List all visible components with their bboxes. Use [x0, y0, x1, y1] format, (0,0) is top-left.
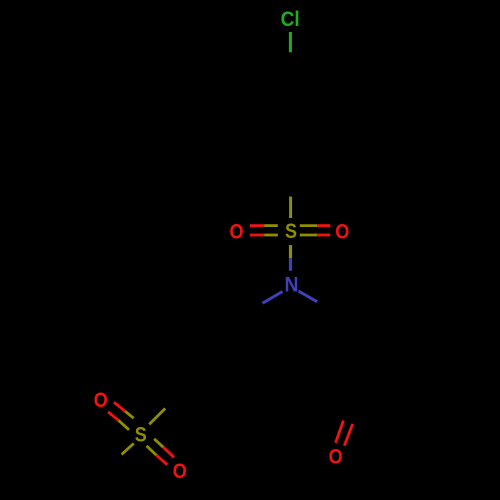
aldehyde C=O double bond (red halves): [336, 421, 344, 443]
svg-text:O: O: [230, 221, 244, 244]
svg-text:O: O: [94, 389, 108, 412]
bond S2-CH3 (olive half): [122, 443, 134, 454]
svg-text:O: O: [329, 446, 343, 469]
bond N-C2 (blue half): [299, 291, 318, 302]
S2=O upper-left double bond: [108, 402, 134, 430]
bond S1-N (olive half + blue half): [289, 245, 292, 258]
svg-text:S: S: [135, 424, 147, 447]
svg-text:Cl: Cl: [281, 8, 300, 31]
S1=O left double bond: [250, 226, 278, 235]
bond N-C7a (blue half): [263, 292, 283, 304]
S1=O right double bond: [300, 226, 331, 235]
bond Cl-C1 (green half): [289, 32, 292, 52]
svg-text:O: O: [335, 221, 349, 244]
svg-text:O: O: [173, 460, 187, 483]
svg-text:N: N: [285, 274, 299, 297]
svg-text:S: S: [285, 220, 297, 243]
bond S2-C5 (olive half): [149, 408, 165, 424]
bond C4-S1 (sulfur half, olive): [289, 197, 292, 219]
S2=O lower-right double bond: [147, 439, 174, 465]
